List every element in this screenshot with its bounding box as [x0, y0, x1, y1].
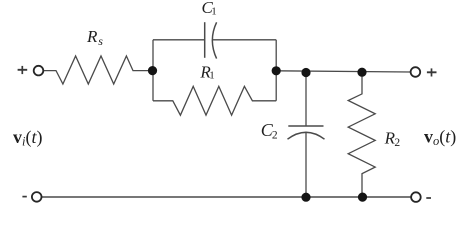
svg-text:vo(t): vo(t) [424, 127, 456, 149]
svg-text:1: 1 [209, 70, 215, 82]
svg-text:1: 1 [211, 6, 217, 18]
svg-text:R: R [86, 27, 98, 46]
svg-text:s: s [98, 34, 103, 48]
svg-text:vi(t): vi(t) [13, 127, 43, 149]
svg-text:2: 2 [394, 137, 400, 149]
svg-text:2: 2 [272, 130, 278, 142]
